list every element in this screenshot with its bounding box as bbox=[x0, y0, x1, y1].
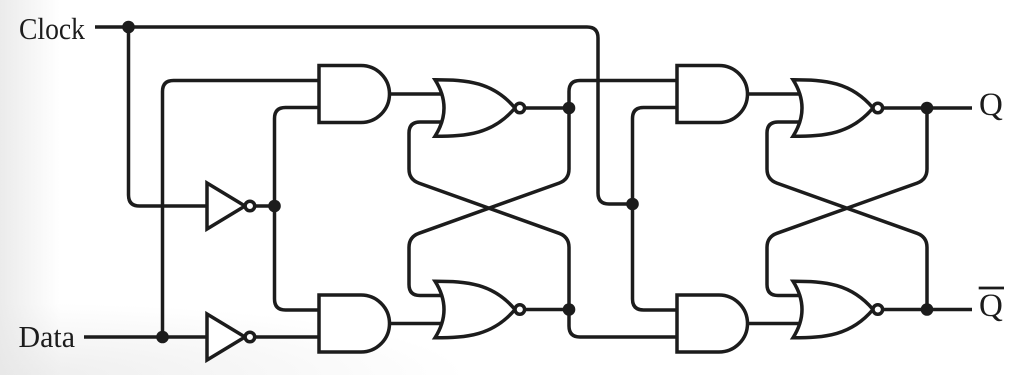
NOR gate G8 (slave latch bottom) bbox=[793, 281, 883, 338]
svg-text:Q: Q bbox=[979, 87, 1003, 123]
junction: node MB (master Qbar) bbox=[563, 303, 576, 316]
inverter U1 (clock inverter) bbox=[207, 183, 255, 229]
wire: NOR G4 output to node MB bbox=[525, 308, 569, 312]
junction: node QB bbox=[921, 303, 934, 316]
wire: inverter U2 output to AND G2 bottom input bbox=[255, 335, 320, 339]
wire: AND G6 output to NOR G8 bottom input bbox=[748, 322, 809, 326]
wire: node Q to output Q bbox=[927, 106, 972, 110]
NOR gate G7 (slave latch top) bbox=[793, 80, 883, 137]
wire: Data line from label to inverter U2 input bbox=[84, 335, 207, 339]
overline of Qbar bbox=[979, 287, 1004, 290]
wire: NOR G7 output to node Q bbox=[883, 106, 927, 110]
inverter U2 (data inverter) bbox=[207, 314, 255, 360]
junction: clock / inverter branch bbox=[122, 21, 135, 34]
wire: AND G1 output to NOR G3 top input bbox=[390, 92, 451, 96]
NOR gate G4 (master latch bottom) bbox=[435, 281, 525, 338]
wire: Data branch up to AND G1 top input bbox=[163, 81, 320, 338]
junction: data / AND G1 branch bbox=[156, 331, 169, 344]
wire: clock node C2 up to AND G5 bottom input bbox=[633, 108, 678, 205]
AND gate G6 (slave, reset) bbox=[677, 295, 748, 352]
wire: inverter U1 output to node CLKB bbox=[255, 204, 275, 208]
wire: clock node C2 down to AND G6 top input bbox=[633, 204, 678, 310]
wire: cross feedback node QB to NOR G7 bottom input bbox=[767, 122, 927, 310]
wire: node M up to AND G5 top input bbox=[569, 81, 677, 109]
wire: NOR G3 output to node M bbox=[525, 106, 569, 110]
junction: clock node C2 bbox=[626, 198, 639, 211]
AND gate G2 (master, reset) bbox=[319, 295, 390, 352]
junction: inverted clock node CLKB bbox=[268, 200, 281, 213]
wire: node MB down to AND G6 bottom input bbox=[569, 310, 677, 338]
wire: cross feedback node MB to NOR G3 bottom input bbox=[409, 122, 569, 310]
AND gate G5 (slave, set) bbox=[677, 66, 747, 123]
junction: node M (master Q) bbox=[563, 102, 576, 115]
wire: cross feedback node Q to NOR G8 top input bbox=[767, 108, 927, 296]
junction: node Q bbox=[921, 102, 934, 115]
wire: node QB to output Qbar bbox=[927, 308, 972, 312]
wire: AND G2 output to NOR G4 bottom input bbox=[390, 322, 451, 326]
wire: node CLKB down to AND G2 top input bbox=[275, 206, 320, 310]
wire: node CLKB up to AND G1 bottom input bbox=[275, 108, 320, 207]
svg-text:Data: Data bbox=[19, 319, 76, 354]
NOR gate G3 (master latch top) bbox=[435, 80, 525, 137]
AND gate G1 (master, set) bbox=[319, 66, 389, 123]
wire: cross feedback node M to NOR G4 top input bbox=[409, 108, 569, 296]
wire: Clock branch down to inverter U1 input bbox=[129, 27, 208, 206]
svg-text:Q: Q bbox=[979, 288, 1003, 324]
wire: Clock line from label to bend at x=598 bbox=[95, 27, 633, 204]
wire: NOR G8 output to node QB bbox=[883, 308, 927, 312]
svg-text:Clock: Clock bbox=[19, 11, 85, 46]
wire: AND G5 output to NOR G7 top input bbox=[748, 92, 809, 96]
